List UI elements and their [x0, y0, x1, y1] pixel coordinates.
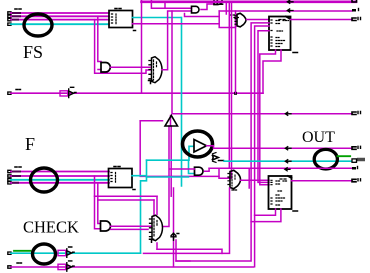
wire mid bottom horizontal [156, 243, 158, 249]
component detail [358, 9, 360, 11]
input pin F0 [8, 170, 11, 172]
wire vertical 172 top [172, 11, 352, 114]
wire [231, 2, 233, 178]
triangle buffer tri2 (up) [165, 116, 178, 127]
wire boxA out right [291, 19, 353, 21]
gate on top line [214, 0, 223, 5]
component detail [15, 166, 21, 168]
buffer K1 box [58, 250, 66, 255]
wire [98, 183, 101, 224]
ellipse gate cluster [183, 131, 213, 157]
component detail [134, 30, 136, 32]
AND gate A1 [101, 63, 110, 73]
input pin FS3 [8, 23, 11, 25]
right pin 2 [352, 9, 356, 12]
boxA pin ticks [271, 20, 273, 46]
mux1 pin label dots [230, 15, 238, 18]
input pin F3 [8, 182, 11, 184]
wire box1 right elbow [133, 23, 142, 25]
net name ticks FS [13, 13, 20, 20]
wire [98, 16, 101, 61]
input pin M [8, 92, 11, 94]
right pin 3 [352, 18, 356, 21]
wire [263, 50, 281, 93]
AND gate A2 [195, 167, 204, 175]
component detail [150, 219, 153, 237]
buffer K2 box [58, 264, 66, 269]
component detail [279, 19, 285, 21]
wire loop stubs to mux5 top [154, 196, 157, 216]
pin marks [17, 262, 22, 264]
wire F line4 [11, 182, 109, 184]
wire cyan [132, 160, 147, 253]
junction dot [234, 92, 237, 95]
wire vertical 173.8 with arrow [173, 188, 175, 253]
component detail [286, 17, 290, 19]
component detail [154, 219, 157, 238]
wire mux3 out to boxB [241, 179, 270, 181]
input pin FS2 [8, 18, 11, 20]
svg-text:F: F [25, 134, 35, 154]
box2 pin ticks [111, 173, 113, 182]
input pin F2 [8, 179, 11, 181]
wire [185, 14, 220, 17]
wire boxA bottom elbows [260, 50, 276, 185]
wire [258, 31, 269, 183]
component detail [358, 159, 364, 161]
wire boxA left pins elbows [176, 23, 269, 261]
wire F line1 [11, 171, 109, 173]
boxA dots below [293, 52, 298, 54]
wire AND1 out to mux2 [111, 66, 151, 68]
component detail [285, 160, 291, 163]
input pin FS1 [8, 15, 11, 17]
boxB dots below [293, 210, 298, 212]
wire [111, 228, 149, 230]
mux M2 [149, 57, 163, 84]
right pin 1 [352, 0, 357, 2]
buffer K1 arrow [67, 247, 74, 257]
wire boxB bottom stubs [255, 209, 276, 215]
component detail [115, 173, 117, 183]
wire y10.5 to pin [219, 10, 352, 12]
small gate XOR mini [212, 155, 218, 160]
wire [225, 2, 227, 14]
right pin y180.5 [352, 179, 356, 182]
wire thick top [142, 0, 357, 3]
wire [170, 126, 172, 196]
component detail [115, 14, 117, 24]
wire boxB out right [292, 180, 353, 182]
wire [112, 70, 150, 73]
box1 pin ticks [112, 14, 114, 23]
right pin y161 [352, 159, 357, 162]
boxB pin ticks [271, 180, 273, 204]
svg-text:CHECK: CHECK [23, 218, 79, 237]
wire FS line4 cyan [11, 23, 109, 25]
component detail [228, 174, 230, 185]
component detail [358, 18, 361, 20]
wire [141, 0, 143, 93]
mux M1 [237, 13, 246, 27]
wire A2 out [205, 168, 210, 171]
wire cyan into tri1 [189, 146, 194, 160]
triangle buffer tri1 (right) [194, 140, 207, 153]
wire F line2 [11, 175, 109, 177]
component detail [213, 153, 217, 163]
ellipse FS [24, 14, 52, 36]
green dashes out [338, 155, 351, 157]
wire F line3 cyan [11, 179, 109, 181]
wire F branch verticals [95, 176, 101, 229]
wire bottom horizontals [157, 249, 222, 253]
component detail [232, 174, 235, 187]
component detail [154, 60, 157, 80]
arrows on right lines [287, 0, 293, 3]
component detail [149, 61, 152, 79]
arrow component on vertical [171, 233, 179, 240]
component detail [285, 147, 291, 150]
wire [144, 188, 230, 253]
ellipse CHECK [33, 244, 56, 264]
right pin y168 [352, 167, 356, 170]
wire A2 upper input [170, 168, 195, 170]
component detail [235, 16, 237, 24]
ellipse F [31, 168, 58, 192]
wire bus rect to mux1 [133, 11, 236, 28]
wire mid magenta [11, 92, 263, 94]
wire AND-a top input [151, 0, 191, 8]
wire [170, 116, 172, 127]
wire [140, 121, 219, 177]
component detail [280, 178, 286, 180]
wire [235, 26, 237, 93]
wire [173, 253, 175, 266]
wire [255, 26, 269, 267]
input pin CHECK2 [8, 266, 11, 268]
wire mux5 out up to tri2 [163, 126, 169, 227]
wire AND1 lower input [98, 69, 101, 71]
boxB inner dots [276, 181, 288, 205]
pin marks [16, 89, 21, 91]
wire A3 out to mux5 [111, 225, 152, 227]
component detail [288, 176, 292, 178]
component detail [358, 179, 361, 181]
wire box1 out cyan [133, 17, 182, 19]
input pin F1 [8, 175, 11, 177]
component detail [232, 189, 237, 191]
input pin FS0 [8, 12, 11, 14]
wire mux1 out to boxA [247, 19, 270, 21]
net name ticks F [13, 172, 20, 183]
wire verticals from thick area down [228, 2, 230, 168]
arrows on right lines [285, 112, 291, 115]
mux M5 [150, 215, 163, 242]
buffer M box [60, 91, 68, 96]
buffer M arrow [69, 87, 76, 97]
AND gate A3 [101, 221, 111, 231]
wire [98, 199, 154, 201]
AND gate A-a (top) [192, 6, 200, 13]
wire FS line3 [11, 19, 109, 21]
wire [176, 240, 190, 261]
wire cyan vertical long [181, 18, 183, 187]
green dashes check [14, 250, 31, 252]
component detail [357, 167, 359, 169]
wire cyan OUT line [224, 160, 352, 162]
wire magenta rect left of tri2 [140, 120, 162, 122]
wire CHECK2 magenta [11, 266, 254, 268]
buffer K2 arrow [67, 261, 74, 271]
wire mux2 out up [162, 11, 192, 70]
component detail [133, 189, 135, 191]
wire tri1 out to OUT line [207, 146, 353, 149]
component detail [114, 166, 120, 168]
wire cyan jogs [147, 160, 195, 173]
ellipse OUT [314, 149, 337, 169]
wire FS line1 [11, 12, 109, 14]
wire AND-a out [201, 4, 214, 10]
svg-text:FS: FS [23, 42, 43, 62]
wire [251, 209, 281, 222]
dotted tail [219, 160, 224, 162]
wire branch verticals to AND1 [95, 20, 112, 74]
right pin y113 [352, 112, 356, 115]
svg-text:OUT: OUT [302, 129, 335, 146]
wire cyan [147, 176, 189, 178]
right pin y148 [352, 147, 356, 150]
boxA inner text dots [276, 21, 289, 47]
wire loop top horizontals [95, 195, 158, 197]
component detail [115, 8, 121, 10]
wire mux3 bus rect [219, 168, 229, 178]
wire y168 to pin [209, 167, 352, 169]
component detail [285, 168, 290, 171]
wire vertical 249 short [248, 168, 250, 188]
component detail [358, 112, 361, 114]
wire CHECK cyan [11, 252, 141, 254]
mux M3 [230, 170, 241, 188]
component detail [15, 8, 21, 10]
component detail [358, 146, 361, 148]
component detail [287, 9, 293, 12]
input pin CHECK1 [8, 252, 11, 254]
wire FS line2 [11, 15, 109, 17]
